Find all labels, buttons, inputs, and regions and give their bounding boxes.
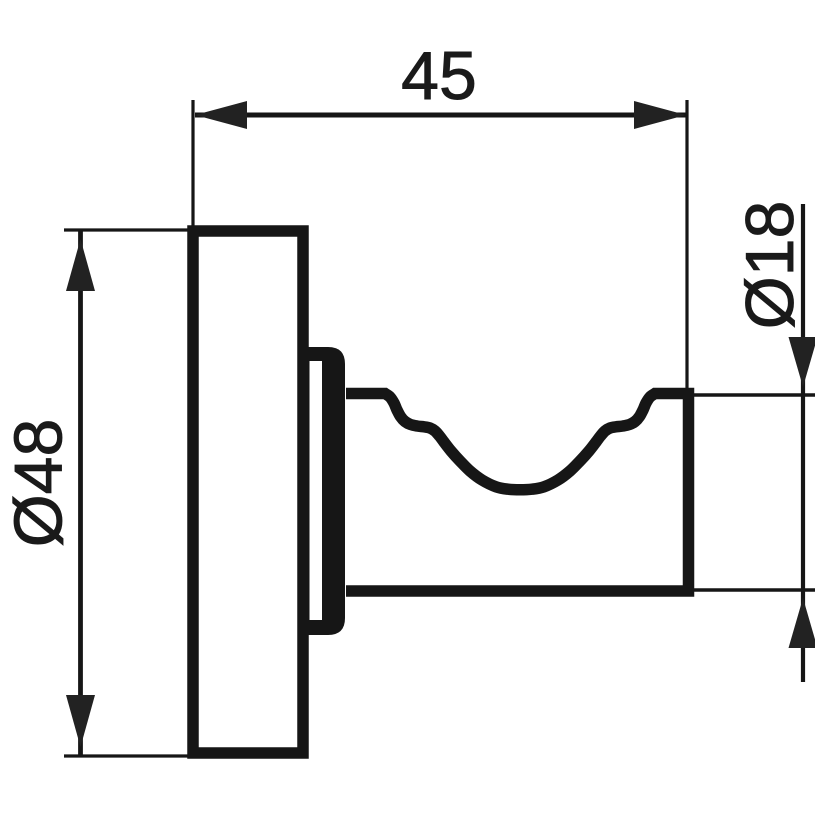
wall plate (193, 231, 303, 753)
dimension D48: dimension line (78, 231, 83, 755)
dimension D18: bottom extension line (690, 588, 815, 592)
dimension 45: label (401, 38, 477, 114)
dimension 45: right extension line (685, 100, 688, 392)
dimension 45: left extension line (191, 100, 194, 226)
dimension 45: left arrowhead (195, 101, 247, 129)
dimension D48: top arrowhead (66, 239, 95, 291)
dimension D48: bottom extension line (64, 754, 188, 757)
dimension D18: lower arrowhead pointing up (789, 598, 815, 648)
dimension D48: top extension line (64, 228, 188, 231)
dimension D18: dimension line (801, 204, 805, 682)
flange collar (303, 347, 345, 635)
dimension D48: label (1, 419, 77, 548)
svg-text:Ø48: Ø48 (1, 419, 77, 548)
dimension D18: label (732, 201, 808, 330)
svg-text:45: 45 (401, 38, 477, 114)
dimension D18: top extension line (690, 393, 815, 397)
svg-text:Ø18: Ø18 (732, 201, 808, 330)
dimension 45: dimension line (195, 113, 686, 118)
dimension D48: bottom arrowhead (66, 695, 95, 747)
hook arm (346, 394, 689, 592)
dimension D18: upper arrowhead pointing down (789, 337, 815, 387)
dimension 45: right arrowhead (634, 101, 686, 129)
